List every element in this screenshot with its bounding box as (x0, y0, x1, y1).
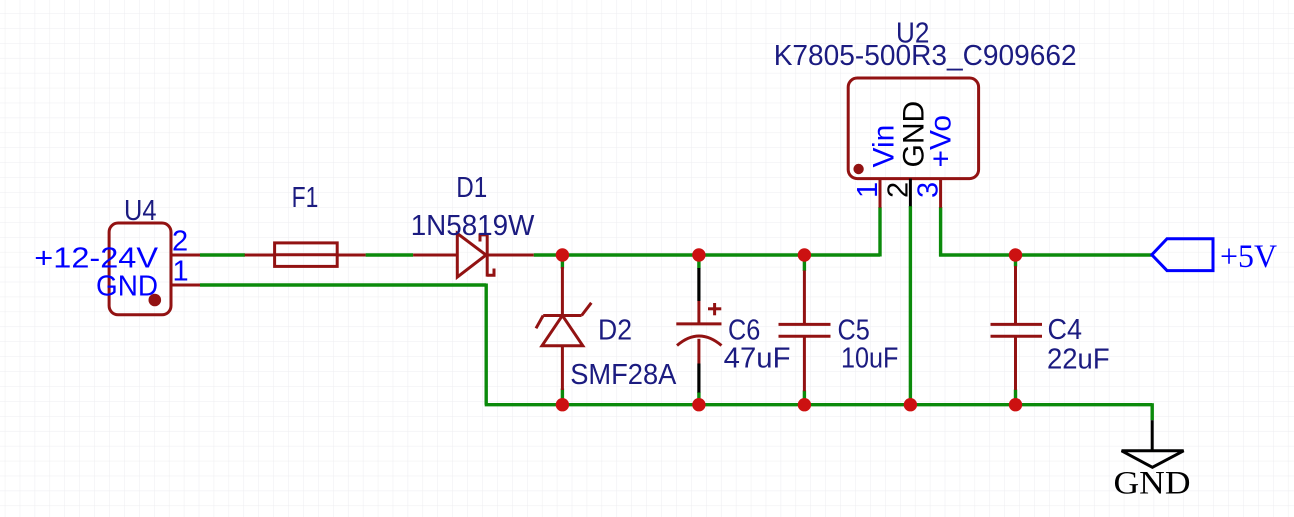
capacitor C4 (991, 266, 1043, 390)
svg-text:D1: D1 (456, 172, 487, 204)
capacitor C5 (779, 271, 831, 392)
wire stub C6 top (697, 255, 700, 269)
svg-text:22uF: 22uF (1047, 343, 1110, 375)
wire stub D2 top (561, 255, 564, 269)
regulator U2 (848, 78, 978, 208)
pin C6-2 black segment bottom (697, 364, 700, 393)
wire stub C5 top (803, 255, 806, 271)
wire GND net: U4 pin1 horizontal (200, 283, 486, 286)
wire stub C4 top (1014, 255, 1017, 267)
wire stub C6 bottom (697, 392, 700, 405)
wire stub ground (1150, 403, 1153, 420)
U4 pin1 dot (149, 294, 162, 307)
svg-text:1: 1 (173, 256, 189, 288)
svg-text:SMF28A: SMF28A (570, 359, 677, 391)
diode D1 1N5819W (413, 233, 534, 277)
svg-text:D2: D2 (598, 315, 632, 347)
wire stub D2 bottom (561, 389, 564, 405)
svg-text:U4: U4 (124, 195, 157, 227)
junction dot U2 pin2 bottom (904, 398, 917, 411)
junction dot C5 bottom (798, 398, 811, 411)
svg-text:F1: F1 (292, 182, 319, 214)
junction dot C6 bottom (692, 398, 705, 411)
junction dot C4 top (1009, 248, 1022, 261)
connector U4 (109, 223, 200, 315)
svg-text:47uF: 47uF (724, 343, 791, 375)
wire stub C5 bottom (803, 391, 806, 405)
wire stub C4 bottom (1014, 390, 1017, 405)
svg-text:2: 2 (172, 226, 188, 258)
junction dot C4 bottom (1009, 398, 1022, 411)
wire net +12-24V: U4 pin2 to F1 (200, 253, 245, 256)
wire F1 to D1 anode (366, 253, 414, 256)
ground symbol GND (1114, 420, 1191, 501)
wire U2 pin1 vertical (878, 207, 881, 257)
U2 pin2 black (909, 179, 912, 207)
wire U2 pin3 vertical (939, 207, 942, 257)
wire +5V net: U2 pin3 to flag (939, 253, 1152, 256)
pin C6-1 black segment top (697, 268, 700, 301)
net flag +5V (1152, 239, 1277, 275)
svg-text:K7805-500R3_C909662: K7805-500R3_C909662 (774, 40, 1077, 72)
svg-text:+5V: +5V (1220, 239, 1277, 275)
svg-text:GND: GND (1114, 465, 1191, 501)
svg-text:1: 1 (852, 182, 884, 198)
TVS diode D2 SMF28A (536, 267, 591, 390)
wire U2 pin2 vertical to bottom rail (909, 206, 912, 405)
pin C6 dark red top (697, 301, 700, 324)
svg-text:2: 2 (882, 182, 914, 198)
junction dot D2 top (556, 248, 569, 261)
svg-text:Vin: Vin (867, 125, 900, 168)
junction dot C6 top (692, 248, 705, 261)
svg-text:10uF: 10uF (841, 343, 898, 375)
wire GND net vertical drop (485, 284, 488, 405)
fuse F1 (245, 243, 366, 267)
wire top rail: D1 cathode to U2 Vin (534, 253, 880, 256)
U2 pin1 dot (853, 164, 863, 174)
svg-text:1N5819W: 1N5819W (411, 210, 535, 242)
svg-text:C4: C4 (1048, 314, 1083, 346)
svg-text:+12-24V: +12-24V (34, 242, 158, 274)
wire bottom rail (485, 403, 1152, 406)
junction dot C5 top (798, 248, 811, 261)
capacitor C6 polarized (676, 303, 721, 346)
svg-text:3: 3 (913, 182, 945, 198)
svg-text:GND: GND (96, 271, 158, 303)
svg-text:+Vo: +Vo (925, 115, 958, 168)
pin C6 dark red bottom (697, 339, 700, 364)
junction dot D2 bottom (556, 398, 569, 411)
